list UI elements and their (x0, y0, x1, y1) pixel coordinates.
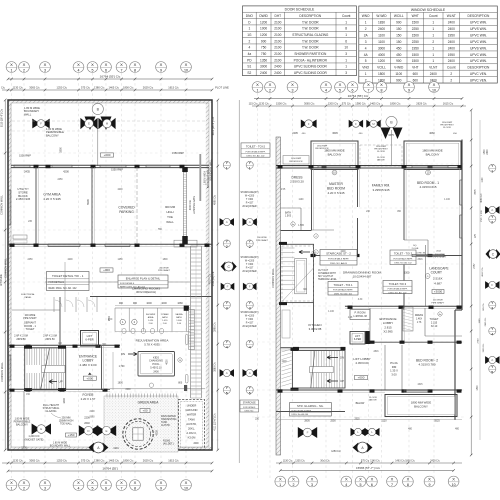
svg-text:+000: +000 (86, 376, 93, 380)
family rm label (372, 184, 390, 192)
svg-text:2: 2 (293, 483, 295, 487)
svg-text:BATH: BATH (162, 316, 168, 319)
svg-text:Y: Y (225, 300, 228, 305)
toilet toi1 box (328, 282, 358, 296)
cutout dashed rect (282, 246, 314, 301)
toilet2 label (429, 312, 442, 328)
svg-text:GYM AREA: GYM AREA (43, 193, 61, 197)
svg-text:1800: 1800 (63, 398, 66, 404)
svg-text:2805: 2805 (304, 420, 310, 423)
svg-text:2629 C/c: 2629 C/c (143, 85, 154, 89)
right margin marker C big (486, 249, 500, 259)
staircase st2 title box (320, 250, 357, 266)
svg-text:1: 1 (345, 58, 347, 62)
svg-text:1500: 1500 (21, 446, 27, 449)
svg-text:BATH: BATH (176, 316, 182, 319)
svg-text:150: 150 (396, 40, 402, 44)
svg-text:4: 4 (226, 345, 228, 349)
level pill +000 mid (100, 268, 113, 272)
right plan top dimension line 16764 (254, 94, 463, 100)
svg-text:UNDER: UNDER (187, 404, 197, 408)
svg-text:1000: 1000 (260, 27, 267, 31)
svg-text:5: 5 (365, 59, 367, 63)
svg-text:20KL,: 20KL, (188, 427, 195, 431)
svg-text:DNO: DNO (246, 14, 254, 18)
svg-text:575 C/c: 575 C/c (81, 85, 91, 89)
mid Y bubble col1 1 (223, 160, 230, 170)
svg-text:115 C/c: 115 C/c (249, 101, 258, 105)
svg-text:UPVC VEN.: UPVC VEN. (470, 78, 487, 82)
svg-text:2250: 2250 (412, 27, 419, 31)
svg-text:PARKING: PARKING (119, 210, 134, 214)
svg-text:1: 1 (226, 166, 228, 170)
svg-text:1550 RMP: 1550 RMP (291, 158, 302, 160)
svg-text:1100: 1100 (479, 318, 481, 323)
kitchen walls (281, 303, 346, 351)
svg-text:2400: 2400 (448, 40, 455, 44)
svg-text:9: 9 (429, 483, 431, 487)
svg-text:UPVC WIN.: UPVC WIN. (470, 21, 487, 25)
lift right column (365, 331, 370, 344)
boundary wall vertical note right (204, 167, 211, 188)
svg-text:1465 C/c: 1465 C/c (109, 458, 120, 462)
gym area label (43, 193, 61, 201)
left plan bottom grid bubble X7 (116, 480, 127, 491)
svg-text:900: 900 (396, 78, 402, 82)
svg-text:2405: 2405 (292, 132, 298, 135)
svg-text:2400: 2400 (153, 371, 159, 374)
svg-text:1: 1 (365, 21, 367, 25)
svg-text:2400: 2400 (274, 71, 281, 75)
svg-text:1800 C/c: 1800 C/c (123, 458, 134, 462)
svg-text:4.45X3.00: 4.45X3.00 (355, 361, 369, 365)
right margin Y bubble 3 (489, 300, 496, 310)
floor above dashed box (360, 145, 402, 166)
right plan top grid bubble X4 (321, 82, 332, 93)
right plan pill +000 low (355, 375, 368, 379)
svg-text:X: X (433, 82, 436, 87)
left plan wall row y166 (11, 165, 209, 168)
gate shelf rect (174, 240, 197, 247)
left plan right margin dim line (217, 99, 220, 452)
svg-text:1G: 1G (247, 33, 252, 37)
svg-text:8: 8 (134, 486, 136, 490)
svg-text:R =157: R =157 (246, 323, 254, 325)
mid marker a1 (220, 218, 234, 226)
window left plan left wall 2 (8, 355, 10, 380)
utility store label (16, 187, 31, 201)
svg-text:R =157: R =157 (246, 268, 254, 270)
svg-text:2400: 2400 (378, 27, 385, 31)
svg-text:1500: 1500 (412, 34, 419, 38)
svg-text:575 C/c: 575 C/c (342, 101, 352, 105)
svg-text:3030 C/c: 3030 C/c (483, 343, 485, 353)
svg-text:COVERED: COVERED (118, 206, 135, 210)
svg-text:DWG. NO. AD. 102: DWG. NO. AD. 102 (389, 291, 408, 294)
svg-text:F: F (307, 431, 309, 435)
svg-text:1500: 1500 (404, 272, 410, 275)
svg-text:1: 1 (279, 483, 281, 487)
svg-text:2: 2 (226, 245, 228, 249)
left plan top grid bubble X10 (181, 62, 192, 73)
svg-text:3: 3 (44, 68, 46, 72)
svg-text:2: 2 (248, 39, 250, 43)
svg-text:20 EQ.RISER: 20 EQ.RISER (242, 271, 257, 273)
svg-text:X: X (408, 82, 411, 87)
svg-text:UPVS WIN.: UPVS WIN. (470, 27, 487, 31)
foyer label (81, 393, 96, 401)
rp bottom marker 3 (365, 428, 380, 436)
svg-text:1200: 1200 (378, 59, 385, 63)
toe wall label (165, 205, 176, 224)
svg-text:Count: Count (447, 66, 456, 70)
mid Y bubble col1 3 (223, 300, 230, 310)
svg-text:10.02/4X4.687: 10.02/4X4.687 (353, 275, 372, 279)
svg-text:4a: 4a (248, 52, 252, 56)
right marker G (349, 120, 363, 128)
svg-text:26P2.50: 26P2.50 (45, 338, 55, 341)
left plan top grid bubble X2 (19, 62, 30, 73)
right plan bottom grid bubble X9 (424, 476, 435, 487)
toilet toi-2 box (241, 143, 270, 158)
svg-text:2100: 2100 (274, 20, 281, 24)
window left plan top wall 0 (14, 165, 30, 167)
right plan top grid bubble X3 (287, 82, 298, 93)
svg-text:1: 1 (432, 53, 434, 57)
svg-text:2400: 2400 (448, 59, 455, 63)
right marker F (301, 119, 317, 128)
svg-text:1800 C/c: 1800 C/c (123, 85, 134, 89)
window left plan left wall (8, 190, 10, 225)
svg-text:W =1200: W =1200 (245, 196, 255, 198)
svg-text:1: 1 (432, 27, 434, 31)
svg-text:1350: 1350 (260, 58, 267, 62)
left plan bottom grid bubble X1 (6, 480, 17, 491)
wall x425 vert (424, 308, 426, 336)
left plan top dimension row (1, 85, 229, 91)
landscape pill (432, 290, 444, 294)
scatter small dims (26, 179, 451, 419)
toilet detail title box (47, 272, 90, 291)
svg-text:4: 4 (248, 46, 250, 50)
gym east wall (92, 167, 94, 244)
svg-text:1.35 X: 1.35 X (390, 369, 398, 373)
svg-text:WLNT: WLNT (447, 14, 456, 18)
svg-text:V-WID: V-WID (394, 66, 404, 70)
p room box (350, 310, 370, 320)
main stair columns (291, 348, 299, 391)
mid Y bubble col1 2 (223, 239, 230, 249)
svg-text:F: F (227, 285, 229, 289)
svg-text:X: X (91, 62, 94, 67)
svg-text:2550: 2550 (330, 420, 336, 423)
svg-text:3.295X5.945: 3.295X5.945 (372, 188, 389, 192)
svg-text:F: F (355, 122, 357, 126)
right plan right wall (455, 140, 462, 421)
svg-text:ELECTRICAL: ELECTRICAL (21, 293, 35, 296)
svg-text:X: X (345, 477, 348, 482)
svg-text:FOR DETAILS: FOR DETAILS (49, 281, 65, 284)
svg-text:900: 900 (119, 302, 124, 305)
svg-text:UPVC SLIDING DOOR: UPVC SLIDING DOOR (294, 71, 328, 75)
svg-text:1130 C/c: 1130 C/c (13, 85, 24, 89)
svg-text:TOILET-TOI.3: TOILET-TOI.3 (389, 282, 407, 286)
svg-text:(AU,DET.): (AU,DET.) (163, 443, 174, 446)
full height glazing note (43, 404, 61, 418)
svg-text:X: X (380, 82, 383, 87)
changing rooms label (132, 287, 160, 295)
right plan bottom grid bubble X2 (288, 476, 299, 487)
svg-text:Y: Y (491, 300, 494, 305)
svg-text:3080 C/c: 3080 C/c (214, 361, 217, 371)
wicket gate note (25, 435, 44, 441)
svg-text:1130 C/c: 1130 C/c (13, 458, 24, 462)
svg-text:1615 C/c: 1615 C/c (168, 458, 179, 462)
svg-text:X: X (134, 480, 137, 485)
svg-text:1.48: 1.48 (348, 317, 353, 319)
svg-text:COMMON WALL: COMMON WALL (4, 258, 8, 278)
svg-text:5: 5 (339, 88, 341, 92)
svg-text:A: A (491, 358, 493, 362)
svg-text:8: 8 (381, 88, 383, 92)
mid Y bubble col2 4 (246, 339, 253, 349)
svg-text:2400: 2400 (260, 71, 267, 75)
door schedule table (243, 6, 357, 76)
svg-text:1000: 1000 (146, 302, 152, 305)
svg-text:DESCRIPTION: DESCRIPTION (468, 66, 490, 70)
wall y389 (8, 389, 205, 392)
svg-text:10: 10 (432, 88, 436, 92)
right plan top grid bubble X7 (363, 82, 374, 93)
svg-text:2100: 2100 (274, 33, 281, 37)
svg-text:3065 C/c: 3065 C/c (29, 458, 40, 462)
svg-text:LANDING GATE: LANDING GATE (193, 195, 196, 214)
svg-text:X2.10: X2.10 (431, 325, 438, 328)
svg-text:2: 2 (269, 88, 271, 92)
svg-text:VLNT: VLNT (429, 66, 437, 70)
right marker stem (391, 130, 393, 165)
rmp note 1 (315, 146, 329, 151)
svg-text:PD: PD (247, 58, 252, 62)
right plan bottom grid bubble X8 (403, 476, 414, 487)
svg-text:2400: 2400 (487, 149, 489, 155)
svg-text:X: X (10, 62, 13, 67)
svg-text:2400: 2400 (274, 65, 281, 69)
balcony box 2 (404, 141, 461, 170)
master bath walls (312, 230, 335, 254)
utility shelf boxes (13, 235, 27, 243)
entrance pill +000 (83, 373, 96, 381)
svg-text:200 WIDE: 200 WIDE (257, 237, 267, 239)
svg-text:WHT: WHT (412, 14, 419, 18)
svg-text:8: 8 (407, 483, 409, 487)
svg-text:1130 C/c: 1130 C/c (283, 459, 293, 462)
svg-text:7: 7 (368, 88, 370, 92)
svg-text:X: X (120, 480, 123, 485)
svg-text:5: 5 (360, 483, 362, 487)
svg-text:Y: Y (491, 326, 494, 331)
floor above note (369, 397, 377, 402)
svg-text:2435: 2435 (24, 170, 30, 174)
svg-text:1120: 1120 (381, 420, 387, 423)
svg-text:2250: 2250 (412, 40, 419, 44)
svg-text:200 WIDE: 200 WIDE (25, 315, 36, 317)
svg-text:5525: 5525 (434, 420, 440, 423)
svg-text:2.45X3.945: 2.45X3.945 (16, 197, 31, 201)
svg-text:1800 C/c: 1800 C/c (405, 459, 415, 462)
wall x106 foyer east (102, 346, 114, 390)
svg-text:GROUND: GROUND (186, 408, 198, 412)
svg-text:750: 750 (261, 52, 267, 56)
svg-text:BALCONY: BALCONY (328, 152, 342, 156)
svg-text:A: A (226, 220, 228, 224)
svg-text:4580 C/c: 4580 C/c (214, 194, 217, 205)
svg-text:FLOOR: FLOOR (377, 151, 385, 153)
svg-text:REFF. DWG. NO. AD. 102: REFF. DWG. NO. AD. 102 (49, 287, 78, 290)
svg-text:1380 C/c: 1380 C/c (94, 458, 105, 462)
right marker M (366, 120, 380, 128)
svg-text:4000 C/o: 4000 C/o (189, 199, 192, 210)
svg-text:200 WIDE: 200 WIDE (433, 300, 444, 302)
svg-text:1335 C/c: 1335 C/c (295, 459, 305, 462)
svg-text:1465 C/c: 1465 C/c (370, 101, 381, 105)
svg-text:6: 6 (352, 88, 354, 92)
svg-text:1: 1 (345, 33, 347, 37)
svg-text:X: X (367, 82, 370, 87)
svg-text:2660: 2660 (89, 417, 95, 419)
svg-text:X: X (10, 480, 13, 485)
svg-text:1100: 1100 (395, 72, 402, 76)
right plan bottom wall low (276, 411, 345, 413)
svg-text:2450: 2450 (27, 259, 33, 261)
svg-text:Y: Y (225, 339, 228, 344)
svg-text:1200: 1200 (260, 20, 267, 24)
svg-text:3: 3 (345, 71, 347, 75)
svg-text:491 F C/c: 491 F C/c (482, 266, 484, 276)
section marker left of B (80, 118, 97, 129)
svg-text:2629 C/c: 2629 C/c (416, 101, 427, 105)
svg-text:FOR DETAILS REFF.: FOR DETAILS REFF. (333, 289, 353, 292)
svg-text:1000: 1000 (161, 302, 167, 305)
wall y282 (45, 281, 118, 283)
svg-text:WALL: WALL (166, 220, 174, 224)
wall x358 vertical (358, 168, 360, 255)
svg-text:E: E (105, 429, 107, 433)
svg-text:Y: Y (225, 160, 228, 165)
svg-text:K3.0M: K3.0M (188, 436, 197, 440)
svg-text:4.315X3.780: 4.315X3.780 (418, 363, 435, 367)
marker E2 bottom (97, 425, 116, 436)
svg-text:2525: 2525 (354, 419, 360, 421)
right plan top dimension row (249, 101, 466, 107)
svg-text:TOE: TOE (167, 215, 173, 219)
win circle 10b (426, 170, 431, 175)
svg-text:4: 4 (78, 486, 80, 490)
svg-text:X: X (44, 62, 47, 67)
mid Y bubble col1 4 (223, 339, 230, 349)
svg-text:DHT: DHT (275, 14, 282, 18)
svg-text:SHOWER PARTITION: SHOWER PARTITION (294, 52, 327, 56)
svg-text:2430 [90] C/o: 2430 [90] C/o (212, 271, 215, 286)
right plan wall y306 (345, 306, 462, 309)
mid Y bubble col2 2 (246, 239, 253, 249)
drawing dinning label (343, 271, 410, 279)
svg-text:575 C/c: 575 C/c (81, 458, 91, 462)
svg-text:3000: 3000 (260, 65, 267, 69)
svg-text:T =300: T =300 (246, 264, 254, 266)
svg-text:1950: 1950 (412, 46, 419, 50)
left plan horizontal dashed grid lines (2, 153, 220, 440)
svg-text:8101 [16'-9"] C/c: 8101 [16'-9"] C/c (212, 116, 215, 135)
section marker B top (85, 103, 112, 130)
svg-text:1: 1 (249, 166, 251, 170)
svg-text:2200: 2200 (125, 389, 131, 391)
svg-text:Y: Y (491, 214, 494, 219)
stair columns (24, 346, 66, 391)
svg-text:DWG. NO. AD. 102: DWG. NO. AD. 102 (247, 155, 266, 158)
green area pill (140, 409, 150, 413)
wall x311 vertical (312, 168, 314, 230)
svg-text:3: 3 (226, 306, 228, 310)
svg-text:DN: DN (121, 352, 125, 356)
bed room 1 label (417, 181, 439, 189)
svg-text:1: 1 (11, 486, 13, 490)
svg-text:POOL: POOL (152, 362, 160, 366)
svg-text:9: 9 (160, 486, 162, 490)
svg-text:COVERED WITH: COVERED WITH (318, 273, 336, 275)
left plan top grid bubble X6 (101, 62, 112, 73)
svg-text:1600: 1600 (118, 382, 124, 384)
svg-text:30X2.00(EACH): 30X2.00(EACH) (136, 290, 156, 294)
svg-text:T.W. DOOR: T.W. DOOR (302, 20, 319, 24)
svg-text:10: 10 (184, 486, 188, 490)
svg-text:1: 1 (345, 20, 347, 24)
svg-text:COMMON WALL: COMMON WALL (0, 362, 4, 382)
bed room 2 label (416, 359, 438, 367)
svg-text:+150: +150 (68, 433, 75, 437)
svg-text:DWG. NO.: DWG. NO. (245, 410, 255, 412)
svg-text:16764 [55'] C/c: 16764 [55'] C/c (348, 94, 369, 98)
stone slab note (108, 399, 117, 405)
svg-text:X: X (77, 62, 80, 67)
marker E bottom-left (32, 424, 51, 435)
puja label (390, 361, 398, 376)
svg-text:1340 C/c: 1340 C/c (370, 459, 380, 462)
right plan top grid bubble X5 (335, 82, 346, 93)
underground water tank (179, 400, 205, 450)
svg-text:BALCONY: BALCONY (414, 404, 428, 408)
svg-text:1830: 1830 (378, 21, 385, 25)
svg-text:2: 2 (365, 27, 367, 31)
svg-text:A: A (249, 371, 251, 375)
window right plan right wall 2 (460, 215, 462, 238)
svg-text:X: X (160, 480, 163, 485)
svg-text:1.00: 1.00 (108, 319, 113, 321)
svg-text:+3000: +3000 (434, 290, 443, 294)
right plan common wall hatched (276, 137, 281, 455)
svg-text:STRUCTURAL GLAZING: STRUCTURAL GLAZING (292, 33, 329, 37)
svg-text:1800: 1800 (162, 259, 168, 261)
svg-text:1: 1 (432, 59, 434, 63)
svg-text:10: 10 (452, 483, 456, 487)
right lift box (350, 332, 365, 345)
svg-text:5: 5 (491, 370, 493, 374)
svg-text:WINDOW SCHEDULE: WINDOW SCHEDULE (411, 8, 446, 12)
section marker right of B (98, 118, 115, 129)
staircase data note mid (240, 311, 258, 328)
right margin Y bubble 2 (489, 214, 496, 224)
svg-text:Count: Count (342, 14, 351, 18)
